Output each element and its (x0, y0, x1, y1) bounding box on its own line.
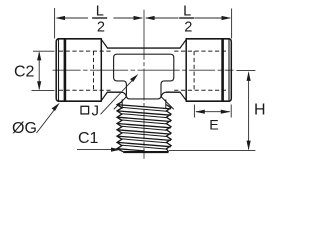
svg-text:C2: C2 (14, 64, 35, 81)
svg-text:H: H (254, 101, 266, 118)
svg-text:J: J (92, 103, 100, 120)
svg-text:C1: C1 (78, 130, 99, 147)
svg-text:ØG: ØG (12, 120, 37, 137)
svg-text:2: 2 (97, 19, 105, 35)
svg-text:E: E (209, 117, 218, 133)
svg-text:L: L (96, 3, 104, 19)
svg-text:L: L (183, 3, 191, 19)
svg-text:2: 2 (184, 19, 192, 35)
